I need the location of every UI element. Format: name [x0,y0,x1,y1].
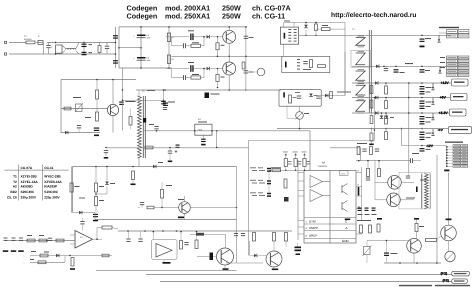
svg-text:+12V: +12V [441,81,450,85]
svg-text:R1: R1 [172,36,174,39]
svg-text:WYEC-28B: WYEC-28B [44,175,61,179]
svg-text:UREF: UREF [309,234,317,238]
svg-text:S20C40C: S20C40C [21,190,36,194]
svg-text:5A/250V: 5A/250V [24,38,32,41]
svg-text:(PS): (PS) [443,278,449,282]
svg-text:CG-07A: CG-07A [21,166,33,170]
svg-text:330u: 330u [147,37,151,40]
svg-text:CG-11: CG-11 [44,166,53,170]
svg-text:+3.3V: +3.3V [439,111,449,115]
svg-text:OSC: OSC [341,172,346,175]
svg-text:R2: R2 [172,58,174,61]
svg-text:AK939D: AK939D [21,185,34,189]
svg-text:Codegen: Codegen [127,11,158,20]
svg-text:DTM: DTM [309,220,316,224]
svg-text:220µ 200V: 220µ 200V [44,196,60,200]
svg-text:mod. 250XA1: mod. 250XA1 [165,11,210,20]
svg-text:~: ~ [23,254,25,258]
svg-text:(PG): (PG) [441,272,448,276]
svg-text:ch. CG-11: ch. CG-11 [252,11,285,20]
svg-text:-12V: -12V [426,144,434,148]
svg-text:XZYEB-16A: XZYEB-16A [44,180,62,184]
svg-text:S10C40C: S10C40C [44,190,59,194]
svg-text:XZYEL-16A: XZYEL-16A [21,180,39,184]
svg-text:KIA393P: KIA393P [44,185,58,189]
svg-text:T1: T1 [13,175,17,179]
svg-text:+5V: +5V [440,95,447,99]
svg-text:330u: 330u [147,59,151,62]
svg-text:T2: T2 [13,180,17,184]
svg-text:GND: GND [342,239,350,243]
svg-text:C5, C6: C5, C6 [7,196,17,200]
svg-text:~: ~ [23,261,25,265]
svg-text:http://elecrto-tech.narod.ru: http://elecrto-tech.narod.ru [331,12,416,19]
svg-text:A: A [346,226,348,230]
svg-text:A2: A2 [13,185,17,189]
svg-text:250W: 250W [222,11,241,20]
svg-text:XZYEI-33B: XZYEI-33B [21,175,38,179]
svg-text:BD2: BD2 [10,190,17,194]
svg-text:TL494CN: TL494CN [318,165,328,168]
svg-text:CMPR: CMPR [309,226,319,230]
svg-text:330µ 200V: 330µ 200V [21,196,37,200]
